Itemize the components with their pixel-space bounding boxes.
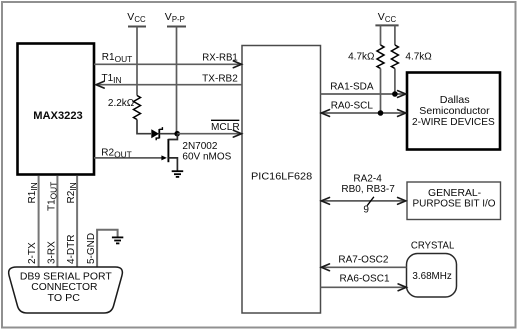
- wire DB9 pin5 GND: [97, 230, 118, 267]
- wire VCC to 2.2k resistor: [136, 27, 138, 96]
- IC U2 PIC16LF628: [242, 46, 321, 314]
- IC U1 MAX3223: [18, 44, 95, 175]
- svg-text:9: 9: [363, 205, 369, 216]
- wire RA0-SCL: [321, 101, 406, 117]
- crystal Y1 3.68MHz: [407, 241, 457, 298]
- wire RA1-SDA: [321, 82, 406, 98]
- ground (transistor source): [172, 171, 184, 177]
- connector J1 DB9: [9, 267, 123, 313]
- power VP-P: [165, 11, 186, 26]
- resistor R1 2.2k: [108, 96, 141, 120]
- svg-text:RA2-4: RA2-4: [353, 174, 382, 185]
- svg-text:MAX3223: MAX3223: [33, 110, 83, 122]
- wire resistor to diode: [137, 120, 151, 134]
- svg-text:5-GND: 5-GND: [86, 233, 97, 264]
- svg-text:R1OUT: R1OUT: [102, 52, 132, 64]
- wire RA7-OSC2: [321, 254, 407, 270]
- svg-text:60V nMOS: 60V nMOS: [182, 151, 231, 162]
- power VCC (left): [127, 11, 146, 26]
- svg-text:PIC16LF628: PIC16LF628: [251, 171, 312, 183]
- diode D1 schottky: [151, 127, 162, 140]
- wire T1IN to TX-RB2: [96, 73, 242, 88]
- wire SCL pullup down: [380, 69, 382, 114]
- wire DB9 pin2 TX: [38, 176, 40, 267]
- wire DB9 pin4 DTR: [76, 176, 78, 267]
- wire SDA pullup down: [394, 69, 396, 95]
- wire VP-P down to MCLR node: [176, 27, 178, 134]
- svg-text:RB0, RB3-7: RB0, RB3-7: [341, 184, 395, 195]
- node SDA junction: [392, 91, 398, 97]
- svg-text:RA1-SDA: RA1-SDA: [330, 82, 374, 93]
- svg-text:4.7kΩ: 4.7kΩ: [348, 52, 375, 63]
- wire DB9 pin3 RX: [56, 176, 58, 267]
- svg-text:R1IN: R1IN: [27, 182, 39, 203]
- wire R2OUT to gate: [94, 148, 167, 161]
- svg-text:CRYSTAL: CRYSTAL: [411, 241, 455, 252]
- svg-text:RX-RB1: RX-RB1: [202, 52, 238, 63]
- node MCLR junction: [174, 131, 180, 137]
- svg-text:RA6-OSC1: RA6-OSC1: [340, 274, 390, 285]
- svg-text:3-RX: 3-RX: [47, 241, 58, 264]
- wire MCLR to PIC: [177, 120, 241, 137]
- svg-text:PURPOSE BIT I/O: PURPOSE BIT I/O: [413, 198, 496, 210]
- svg-text:T1IN: T1IN: [102, 73, 122, 85]
- wire R1OUT to RX-RB1: [94, 52, 242, 68]
- svg-text:R2OUT: R2OUT: [101, 148, 131, 160]
- wire bus RA2-4 RB0,RB3-7: [321, 174, 406, 216]
- svg-text:TO PC: TO PC: [48, 292, 81, 304]
- wire VCC to pullups: [380, 25, 382, 45]
- svg-text:4.7kΩ: 4.7kΩ: [405, 52, 432, 63]
- svg-text:T1OUT: T1OUT: [47, 182, 59, 211]
- resistor R3 4.7k (SDA pullup): [391, 45, 432, 69]
- node SCL junction: [378, 110, 384, 116]
- svg-text:RA7-OSC2: RA7-OSC2: [338, 254, 388, 265]
- resistor R2 4.7k (SCL pullup): [348, 45, 384, 69]
- block GENERAL-PURPOSE BIT I/O: [407, 182, 501, 220]
- wire diode to MCLR node: [160, 133, 178, 135]
- svg-text:3.68MHz: 3.68MHz: [412, 271, 451, 282]
- transistor Q1 2N7002: [168, 134, 231, 171]
- svg-text:RA0-SCL: RA0-SCL: [331, 101, 374, 112]
- svg-text:R2IN: R2IN: [66, 182, 78, 203]
- svg-text:2-WIRE DEVICES: 2-WIRE DEVICES: [412, 116, 495, 128]
- ground (DB9 pin5): [112, 237, 123, 243]
- block Dallas Semiconductor 2-WIRE DEVICES: [407, 73, 500, 150]
- svg-text:2.2kΩ: 2.2kΩ: [108, 98, 135, 109]
- wire RA6-OSC1: [321, 274, 407, 291]
- svg-text:4-DTR: 4-DTR: [66, 235, 77, 264]
- svg-text:2-TX: 2-TX: [27, 242, 38, 264]
- power VCC (right): [375, 11, 398, 25]
- svg-text:TX-RB2: TX-RB2: [202, 73, 238, 84]
- svg-text:MCLR: MCLR: [211, 122, 240, 133]
